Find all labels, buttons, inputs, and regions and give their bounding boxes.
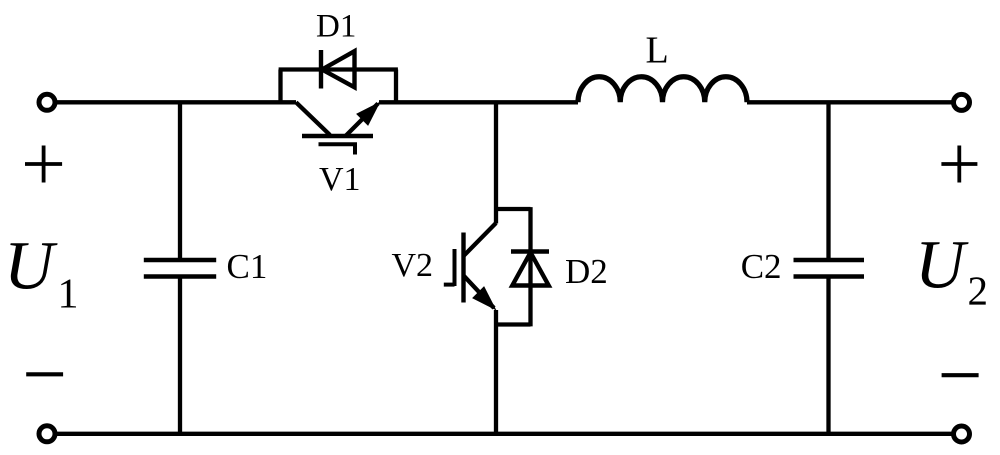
wire top rail middle: [379, 100, 578, 104]
svg-text:U: U: [4, 228, 58, 304]
diode D2: [511, 252, 549, 286]
terminal top-right: [954, 94, 970, 110]
svg-text:1: 1: [58, 272, 79, 318]
wire middle branch bottom: [494, 310, 498, 434]
wire middle branch top: [494, 102, 498, 223]
label U2: [915, 227, 988, 314]
wire D2 branch: [528, 207, 532, 326]
svg-text:2: 2: [968, 268, 989, 314]
wire C1 branch bottom: [178, 277, 182, 434]
svg-text:U: U: [915, 227, 969, 303]
wire D1 right stub: [394, 70, 398, 103]
wire D2 top link: [496, 207, 531, 211]
plus right: [941, 146, 977, 183]
label U1: [4, 228, 79, 318]
svg-text:V2: V2: [392, 247, 434, 284]
terminal top-left: [39, 94, 55, 110]
wire D1 left stub: [278, 70, 282, 103]
svg-text:V1: V1: [319, 161, 361, 198]
wire bottom rail: [47, 432, 962, 436]
diode D1: [321, 50, 355, 89]
wire C1 branch top: [178, 102, 182, 260]
wire D1 top: [279, 67, 398, 71]
minus right: [942, 373, 979, 377]
wire top rail left: [47, 100, 296, 104]
wire C2 branch bottom: [826, 277, 830, 434]
wire C2 branch top: [826, 102, 830, 260]
terminal bottom-left: [39, 426, 55, 442]
capacitor C1: [144, 260, 216, 277]
svg-text:D2: D2: [565, 252, 608, 291]
capacitor C2: [794, 260, 865, 277]
inductor L: [578, 77, 747, 103]
wire top rail right: [747, 100, 962, 104]
transistor V2: [444, 223, 497, 311]
terminal bottom-right: [954, 426, 970, 442]
wire D2 bottom link: [496, 322, 531, 326]
plus left: [25, 146, 62, 183]
minus left: [26, 372, 63, 376]
svg-text:D1: D1: [316, 9, 356, 45]
svg-text:C1: C1: [227, 247, 268, 286]
svg-text:C2: C2: [741, 247, 782, 286]
transistor V1: [296, 102, 381, 155]
svg-text:L: L: [646, 30, 669, 72]
